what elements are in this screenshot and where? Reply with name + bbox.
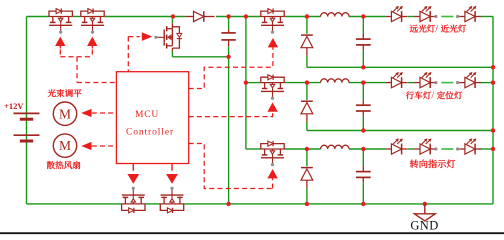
svg-text:+12V: +12V [4, 101, 24, 111]
svg-text:Controller: Controller [126, 128, 174, 138]
svg-text:GND: GND [410, 219, 438, 233]
svg-text:M: M [59, 106, 71, 121]
svg-text:M: M [59, 138, 71, 153]
svg-text:/: / [431, 91, 434, 102]
svg-text:/: / [435, 24, 438, 35]
svg-text:MCU: MCU [135, 110, 159, 120]
